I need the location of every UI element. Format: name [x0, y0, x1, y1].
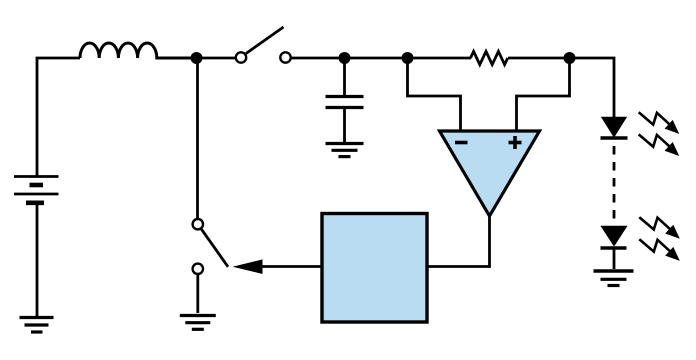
- ground (battery): [20, 318, 54, 333]
- light arrow (LED D1, lower): [639, 134, 680, 156]
- LED D1: [601, 118, 628, 139]
- node A: [191, 52, 203, 64]
- resistor R1: [471, 51, 508, 64]
- light arrow (LED D1, upper): [639, 112, 680, 134]
- wire (switch S1 to node B): [291, 57, 346, 60]
- ground (LED string): [594, 271, 634, 286]
- wire (node A to switch S1): [196, 57, 236, 60]
- inductor L1: [80, 43, 196, 58]
- wire (control block to arrow): [260, 265, 322, 268]
- capacitor C1: [326, 58, 364, 142]
- wire (battery top to inductor): [37, 58, 80, 176]
- ground (switch S2): [180, 316, 216, 330]
- wire (node C to resistor): [407, 57, 471, 60]
- battery BT1: [14, 177, 59, 203]
- arrow (control to switch S2): [233, 259, 263, 274]
- wire (op-amp output to control block): [428, 215, 490, 267]
- switch S2: [193, 219, 228, 274]
- switch S1: [236, 27, 291, 63]
- wire (switch S2 to ground): [196, 274, 199, 313]
- control block U2: [322, 214, 427, 323]
- node D: [564, 52, 576, 64]
- wire (node D to LED string): [569, 58, 614, 118]
- light arrow (LED D2, upper): [639, 217, 680, 239]
- wire (resistor to node D): [508, 57, 570, 60]
- wire (battery bottom to ground): [36, 205, 39, 317]
- wire (node B to node C): [344, 57, 408, 60]
- wire (non-inverting input, node D to op-amp): [517, 58, 570, 130]
- node B: [339, 52, 351, 64]
- ground (capacitor): [326, 144, 364, 157]
- wire (inverting input, node C to op-amp): [408, 58, 461, 130]
- LED D2: [601, 227, 627, 270]
- light arrow (LED D2, lower): [639, 239, 680, 261]
- node C: [402, 52, 414, 64]
- wire (node A down to switch S2): [196, 58, 199, 219]
- op-amp U1: [440, 131, 540, 216]
- dashed wire (LED string): [613, 146, 616, 223]
